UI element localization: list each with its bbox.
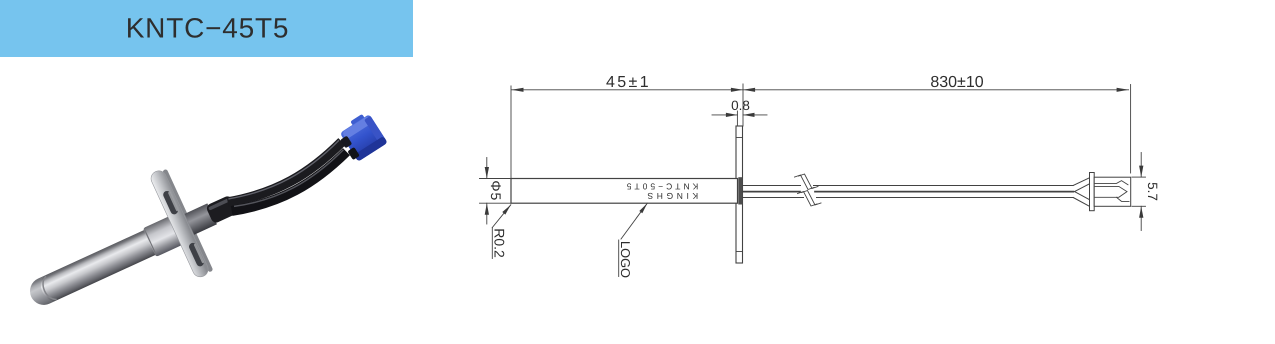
dimension 5.7 bbox=[1132, 153, 1160, 231]
connector side view bbox=[1073, 173, 1131, 211]
brim bbox=[1090, 173, 1095, 211]
boss behind flange bbox=[185, 203, 217, 234]
body bbox=[1094, 177, 1131, 206]
dimension 0.8 (flange thickness) bbox=[712, 98, 767, 126]
svg-text:KNTC−45T5: KNTC−45T5 bbox=[126, 13, 290, 44]
svg-text:0.8: 0.8 bbox=[731, 98, 750, 113]
wire A bbox=[225, 142, 348, 209]
svg-text:LOGO: LOGO bbox=[618, 241, 633, 278]
leader R0.2 bbox=[492, 205, 511, 259]
svg-text:KNTC−50T5: KNTC−50T5 bbox=[624, 181, 698, 191]
flange plate back edge bbox=[162, 169, 213, 273]
technical drawing bbox=[480, 74, 1161, 278]
probe body cylinder bbox=[26, 218, 183, 310]
banner bbox=[0, 0, 413, 57]
photo: probe assembly bbox=[5, 79, 406, 344]
flange slot upper bbox=[162, 190, 179, 216]
black wire sleeve bbox=[205, 195, 238, 224]
flange plate bbox=[149, 168, 211, 279]
svg-text:830±10: 830±10 bbox=[930, 74, 983, 91]
collar in front of flange bbox=[143, 215, 185, 257]
svg-text:Φ5: Φ5 bbox=[488, 180, 504, 201]
dimension 830±10 bbox=[743, 74, 1131, 173]
probe body rectangle bbox=[511, 179, 738, 204]
taper boot bbox=[1073, 178, 1089, 186]
dimension 45±1 bbox=[511, 74, 743, 179]
svg-text:45±1: 45±1 bbox=[606, 74, 651, 91]
dimension Φ5 bbox=[480, 158, 512, 225]
svg-text:5.7: 5.7 bbox=[1145, 182, 1160, 201]
wires: three lines with break gaps bbox=[743, 186, 1074, 198]
svg-text:KINGHS: KINGHS bbox=[644, 191, 698, 201]
flange side view bbox=[736, 126, 743, 263]
svg-text:R0.2: R0.2 bbox=[492, 228, 508, 258]
break symbol lower wire bbox=[798, 191, 822, 207]
break symbol upper wire bbox=[795, 174, 819, 190]
blue connector bbox=[335, 111, 388, 164]
latch details bbox=[1095, 181, 1129, 202]
leader LOGO bbox=[618, 203, 647, 278]
flange slot lower bbox=[188, 242, 205, 268]
wire B bbox=[229, 152, 352, 219]
probe tip cap ring bbox=[39, 276, 56, 302]
